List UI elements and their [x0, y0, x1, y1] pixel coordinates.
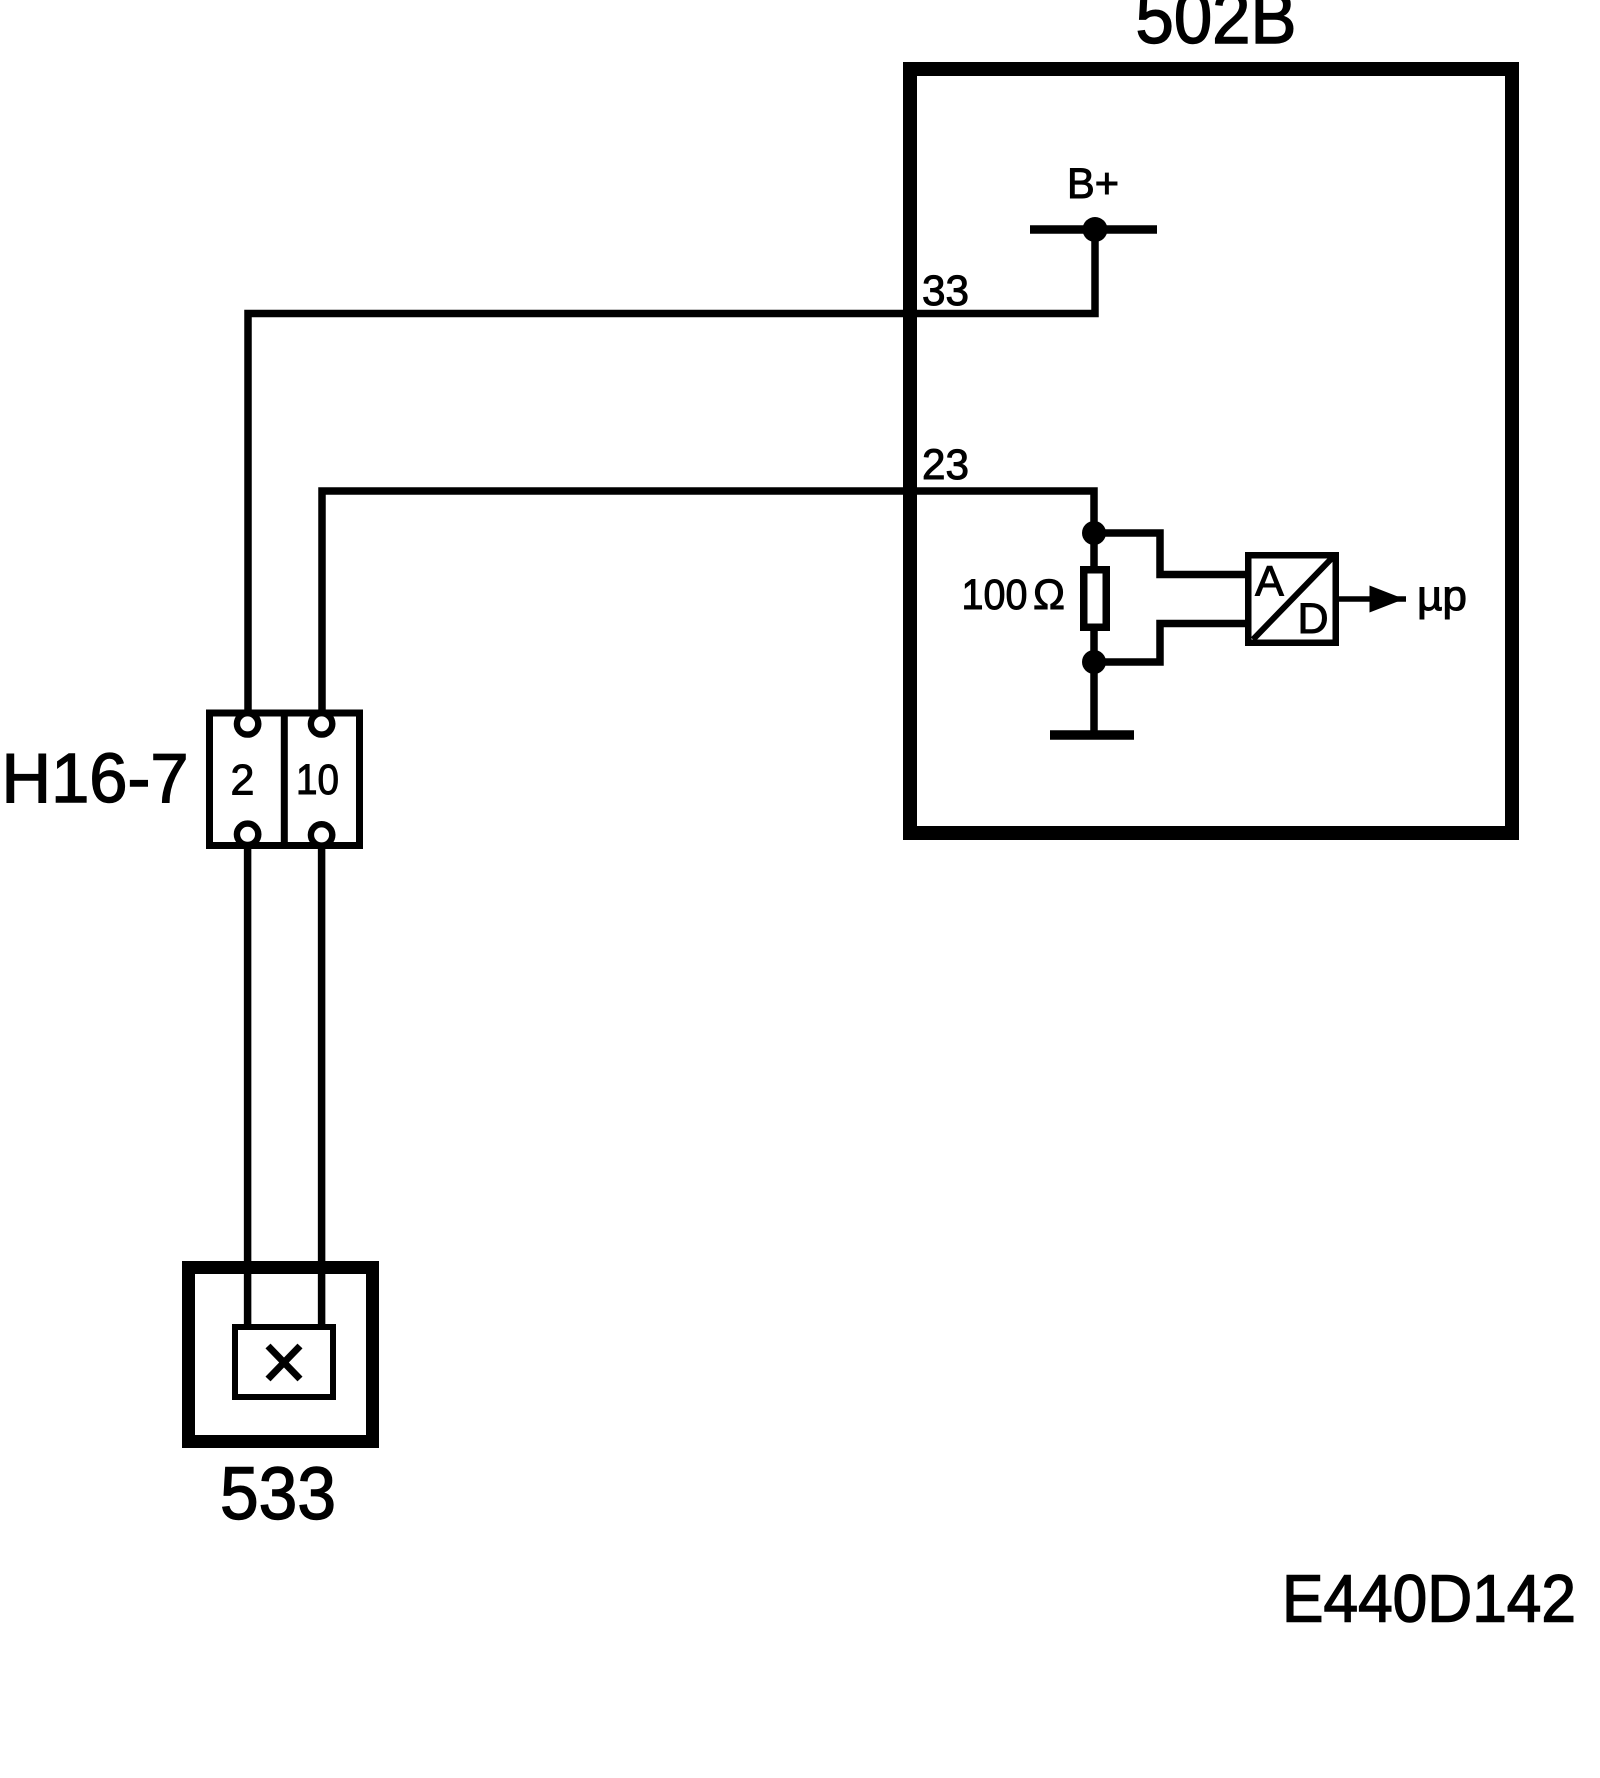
- wire connector pin2 to lamp: [244, 840, 252, 1330]
- junction dot top: [1082, 521, 1106, 545]
- A/D converter U1: [1248, 555, 1336, 643]
- arrow line to microprocessor: [1339, 596, 1406, 602]
- connector pin circle bottom-left: [237, 824, 258, 845]
- node B+ terminal: [1030, 225, 1157, 234]
- connector pin circle top-right: [311, 713, 332, 734]
- ground: [1050, 730, 1134, 740]
- arrowhead: [1370, 586, 1405, 613]
- svg-text:533: 533: [220, 1452, 336, 1535]
- svg-text:A: A: [1255, 558, 1284, 606]
- connector divider: [281, 713, 288, 846]
- svg-text:D: D: [1297, 595, 1328, 643]
- connector H16-7 box: [210, 713, 360, 846]
- svg-text:23: 23: [922, 441, 969, 489]
- wire pin 33 to B+ node: [248, 230, 1095, 713]
- bulb unit 533: [189, 1268, 373, 1442]
- wire pin 23 to resistor: [322, 491, 1094, 712]
- A/D diagonal: [1253, 558, 1333, 640]
- lamp X stroke 1: [268, 1346, 300, 1379]
- resistor R1 100 Ohm: [1084, 570, 1107, 628]
- junction node B+: [1083, 217, 1108, 242]
- svg-text:2: 2: [230, 756, 254, 804]
- svg-text:H16-7: H16-7: [2, 739, 189, 817]
- svg-text:10: 10: [296, 756, 339, 804]
- branch wire bottom to A/D: [1094, 624, 1249, 663]
- svg-text:E440D142: E440D142: [1282, 1562, 1576, 1637]
- lamp L1: [235, 1327, 333, 1397]
- junction dot bottom: [1082, 650, 1106, 674]
- svg-text:100: 100: [962, 571, 1028, 619]
- wire resistor to ground: [1090, 533, 1098, 735]
- svg-text:B+: B+: [1067, 160, 1119, 208]
- connector pin circle bottom-right: [311, 824, 332, 845]
- lamp X stroke 2: [268, 1346, 300, 1379]
- svg-text:33: 33: [922, 267, 969, 315]
- connector pin circle top-left: [237, 713, 258, 734]
- ECU box 502B: [910, 69, 1512, 833]
- svg-text:Ω: Ω: [1033, 571, 1065, 619]
- wire connector pin10 to lamp: [318, 840, 326, 1330]
- svg-text:µp: µp: [1417, 572, 1467, 620]
- svg-text:502B: 502B: [1136, 0, 1297, 59]
- branch wire top to A/D: [1094, 533, 1249, 575]
